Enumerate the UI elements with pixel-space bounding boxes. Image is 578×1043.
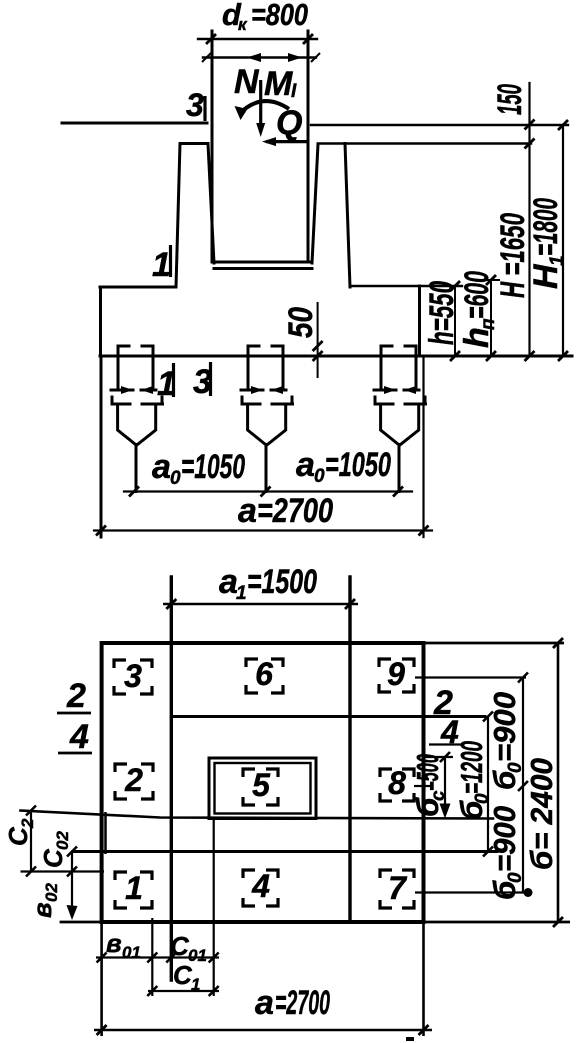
svg-text:1: 1 (125, 870, 143, 906)
svg-text:к: к (238, 15, 248, 34)
svg-text:=1050: =1050 (325, 446, 391, 484)
svg-text:=2700: =2700 (257, 492, 333, 530)
svg-text:N: N (234, 63, 260, 101)
svg-text:4: 4 (69, 718, 89, 756)
svg-text:3: 3 (193, 363, 212, 401)
svg-text:1: 1 (236, 583, 247, 604)
svg-text:01: 01 (122, 943, 141, 962)
svg-text:a: a (152, 448, 171, 486)
svg-text:2: 2 (124, 762, 143, 798)
svg-text:= 2400: = 2400 (524, 758, 559, 850)
svg-text:=800: =800 (251, 0, 308, 32)
svg-text:5: 5 (252, 767, 271, 803)
svg-text:02: 02 (42, 883, 61, 902)
svg-text:0: 0 (505, 872, 526, 883)
svg-text:=900: =900 (487, 692, 522, 762)
svg-text:б: б (524, 850, 559, 870)
svg-text:=2700: =2700 (275, 984, 330, 1022)
svg-text:=600: =600 (458, 271, 496, 319)
svg-text:=1200: =1200 (454, 741, 489, 794)
svg-text:1: 1 (191, 975, 200, 994)
svg-text:Q: Q (276, 104, 302, 142)
svg-text:a: a (296, 446, 315, 484)
svg-text:0: 0 (314, 466, 325, 487)
svg-text:8: 8 (388, 765, 406, 801)
svg-text:6: 6 (255, 656, 273, 692)
svg-text:a: a (238, 492, 257, 530)
svg-text:a: a (255, 984, 274, 1022)
svg-text:2: 2 (66, 677, 86, 715)
svg-text:1: 1 (547, 255, 568, 266)
svg-text:C: C (38, 848, 68, 868)
svg-text:1: 1 (157, 365, 176, 403)
svg-text:=1050: =1050 (181, 448, 245, 486)
svg-text:0: 0 (170, 468, 181, 489)
svg-text:02: 02 (53, 831, 72, 850)
svg-text:=900: =900 (487, 806, 522, 872)
svg-text:в: в (106, 928, 122, 958)
svg-text:=1800: =1800 (527, 198, 565, 256)
svg-text:3: 3 (186, 87, 204, 123)
svg-text:7: 7 (388, 870, 408, 906)
svg-text:2: 2 (18, 818, 37, 829)
svg-text:C: C (3, 826, 33, 846)
svg-text:=500: =500 (410, 754, 445, 791)
svg-text:0: 0 (505, 762, 526, 773)
svg-text:I: I (291, 81, 297, 102)
svg-text:C: C (173, 960, 193, 990)
svg-text:M: M (264, 65, 293, 103)
svg-text:1: 1 (152, 246, 171, 284)
svg-text:в: в (27, 902, 57, 918)
svg-text:=1500: =1500 (247, 563, 317, 601)
svg-text:9: 9 (387, 656, 405, 692)
svg-text:150: 150 (491, 84, 529, 115)
svg-text:h=550: h=550 (423, 281, 461, 345)
svg-text:3: 3 (124, 658, 142, 694)
svg-text:C: C (170, 931, 190, 961)
svg-text:4: 4 (251, 868, 270, 904)
svg-text:50: 50 (282, 307, 320, 338)
